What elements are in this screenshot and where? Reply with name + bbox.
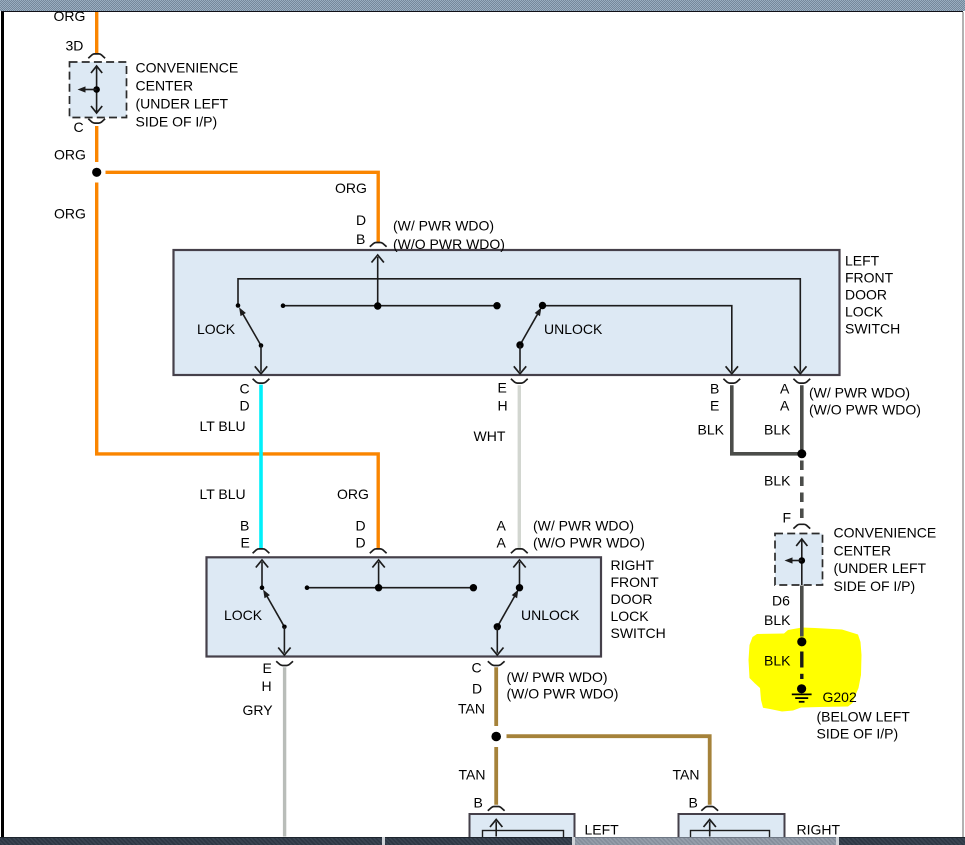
svg-text:BLK: BLK [698,422,725,438]
svg-text:SIDE OF I/P): SIDE OF I/P) [136,113,218,129]
pin F connector (convenience center 2) [793,524,810,528]
junction dots on box1 buses [281,302,501,310]
label: convenience center U1 name [136,59,239,129]
wire TAN: splice down to LEFT actuator pin B [494,747,498,805]
svg-text:LEFT: LEFT [845,253,880,269]
svg-text:DOOR: DOOR [845,287,887,303]
pin 3D connector (convenience center) [88,54,105,58]
svg-text:(W/O PWR WDO): (W/O PWR WDO) [809,402,921,418]
svg-text:D6: D6 [772,593,790,609]
pin C/D connector (box2 bottom) [488,661,505,665]
svg-text:CONVENIENCE: CONVENIENCE [834,525,937,541]
wire ORG: main run down then right to box2 pin D [97,183,379,549]
actuator: LEFT door lock actuator [470,814,575,839]
pin C/D connector (box1 bottom) [253,379,270,383]
convenience center U1 (under left side of I/P) [70,62,127,118]
wire: box1 pin D/B feed with up arrow [372,255,384,306]
wire: box2 pin D entry with up arrow [372,560,384,588]
svg-text:BLK: BLK [764,473,791,489]
svg-text:SIDE OF I/P): SIDE OF I/P) [834,578,916,594]
svg-text:(W/ PWR WDO): (W/ PWR WDO) [809,385,910,401]
svg-text:(W/O PWR WDO): (W/O PWR WDO) [393,236,505,252]
wire LT BLU: box1 pin C/D to box2 pin B/E [259,385,263,549]
svg-text:BLK: BLK [764,612,791,628]
svg-text:TAN: TAN [459,767,486,783]
svg-text:B: B [710,381,719,397]
junction: BLK splice [797,449,806,458]
convenience center U2 (under left side of I/P) [775,534,823,586]
svg-text:CONVENIENCE: CONVENIENCE [136,59,239,75]
switch S2: RIGHT FRONT DOOR LOCK SWITCH [207,557,602,656]
svg-text:3D: 3D [66,38,84,54]
wire: box2 pin B entry with up arrow [256,560,268,588]
svg-text:G202: G202 [823,689,857,705]
wire BLK: convenience center pin D6 down to ground splice [800,586,804,637]
wire BLK: box1 pin B/E down and right to splice [732,385,798,454]
label: variant note at box2 A/A [533,518,645,551]
wire WHT: box1 pin E/H to box2 pin A/A [518,385,521,548]
pin C connector (convenience center) [88,119,105,123]
junction: ORG splice [92,168,101,177]
label: variant note at D/B [393,218,505,253]
svg-text:B: B [689,795,698,811]
svg-text:TAN: TAN [673,767,700,783]
svg-text:LOCK: LOCK [197,321,236,337]
pin B/E connector (box1 bottom) [723,379,740,383]
wire BLK (dashed): splice to convenience center pin F [800,461,804,522]
svg-text:A: A [497,518,507,534]
svg-text:LOCK: LOCK [224,607,263,623]
svg-text:E: E [263,660,272,676]
svg-text:ORG: ORG [335,180,367,196]
wire ORG: from top into convenience center pin 3D [95,12,98,54]
pin A/A connector (box1 bottom) [793,379,810,383]
pin D/B connector (box1 top) [370,243,387,247]
pin D/D connector (box2 top) [370,549,387,553]
wire GRY: box2 pin E/H down off page [283,667,286,836]
highlight marker around ground G202 [749,628,862,712]
svg-text:RIGHT: RIGHT [797,822,841,838]
wire BLK (dashed): to ground G202 [800,652,803,680]
svg-text:(W/ PWR WDO): (W/ PWR WDO) [507,669,608,685]
svg-text:ORG: ORG [54,206,86,222]
svg-text:E: E [498,380,507,396]
svg-text:ORG: ORG [54,147,86,163]
svg-text:D: D [356,535,366,551]
svg-text:LOCK: LOCK [845,304,884,320]
label: variant note at box2 C/D [507,669,619,702]
svg-text:CENTER: CENTER [834,542,892,558]
actuator: RIGHT door lock actuator [679,814,785,839]
svg-text:A: A [780,381,790,397]
svg-text:F: F [783,510,792,526]
svg-text:B: B [240,518,249,534]
switch blade UNLOCK (box1) [514,302,546,374]
pin A/A connector (box2 top) [511,549,528,553]
svg-text:SWITCH: SWITCH [611,625,666,641]
svg-text:(W/O PWR WDO): (W/O PWR WDO) [507,686,619,702]
svg-text:(W/ PWR WDO): (W/ PWR WDO) [393,218,494,234]
label: variant note at A/A [809,385,921,418]
svg-text:D: D [356,518,366,534]
switch blade LOCK (box1) [236,303,268,374]
svg-text:(UNDER LEFT: (UNDER LEFT [136,95,229,111]
wire: box1 top bus from LOCK contact to pin A [238,279,807,374]
svg-text:WHT: WHT [474,428,506,444]
pin B connector (LEFT actuator) [488,807,505,811]
wire BLK: box1 pin A/A down to splice [800,385,804,449]
svg-text:(W/ PWR WDO): (W/ PWR WDO) [533,518,634,534]
ground G202 [792,684,812,702]
svg-text:E: E [710,398,719,414]
wire ORG: convenience center pin C down to junction [95,126,98,162]
svg-text:B: B [356,231,365,247]
wire TAN: box2 pin C/D down to splice [494,667,498,726]
pin E/H connector (box1 bottom) [511,379,528,383]
svg-text:BLK: BLK [764,422,791,438]
pin B connector (RIGHT actuator) [701,807,718,811]
svg-text:D: D [356,212,366,228]
svg-text:LEFT: LEFT [585,822,620,838]
svg-text:RIGHT: RIGHT [611,557,655,573]
svg-text:H: H [262,678,272,694]
svg-text:TAN: TAN [458,701,485,717]
svg-text:LT BLU: LT BLU [200,418,246,434]
svg-text:SWITCH: SWITCH [845,321,900,337]
svg-text:D: D [240,398,250,414]
wire ORG: junction branch to box1 pin D/B [106,172,379,243]
svg-text:A: A [780,398,790,414]
junction: TAN splice [491,732,501,742]
junction: BLK at highlight [797,637,806,646]
svg-text:UNLOCK: UNLOCK [521,607,580,623]
label: switch S1 name [845,253,900,337]
label: ground location note [817,709,911,742]
svg-text:ORG: ORG [54,8,86,24]
svg-text:GRY: GRY [243,702,274,718]
svg-text:C: C [472,660,482,676]
svg-text:C: C [74,119,84,135]
label: switch S2 name [611,557,666,641]
wire: box2 pin A entry with up arrow [513,560,525,588]
svg-text:H: H [498,398,508,414]
svg-text:DOOR: DOOR [611,591,653,607]
label: convenience center U2 name [834,525,937,594]
switch blade UNLOCK (box2) [491,584,523,655]
svg-text:(W/O PWR WDO): (W/O PWR WDO) [533,535,645,551]
svg-text:(BELOW LEFT: (BELOW LEFT [817,709,911,725]
switch blade LOCK (box2) [260,585,291,655]
svg-text:LOCK: LOCK [611,608,650,624]
junction dots on box2 bus [305,584,477,591]
pin B/E connector (box2 top) [253,549,270,553]
switch S1: LEFT FRONT DOOR LOCK SWITCH [174,250,840,375]
svg-text:LT BLU: LT BLU [200,486,246,502]
wire: box2 middle bus [307,587,473,589]
svg-text:SIDE OF I/P): SIDE OF I/P) [817,726,899,742]
svg-text:FRONT: FRONT [611,574,660,590]
svg-text:D: D [472,681,482,697]
svg-text:(UNDER LEFT: (UNDER LEFT [834,560,927,576]
svg-text:A: A [497,535,507,551]
svg-text:E: E [241,535,250,551]
wire: box1 middle bus [283,305,497,307]
svg-text:FRONT: FRONT [845,270,894,286]
svg-text:B: B [474,795,483,811]
svg-text:C: C [240,381,250,397]
pin E/H connector (box2 bottom) [276,661,293,665]
svg-text:UNLOCK: UNLOCK [544,321,603,337]
svg-text:ORG: ORG [337,486,369,502]
wire TAN: splice right and down to RIGHT actuator pin B [507,736,710,805]
wire: box1 UNLOCK contact to pin B [543,306,739,374]
svg-text:BLK: BLK [764,653,791,669]
svg-text:CENTER: CENTER [136,77,194,93]
